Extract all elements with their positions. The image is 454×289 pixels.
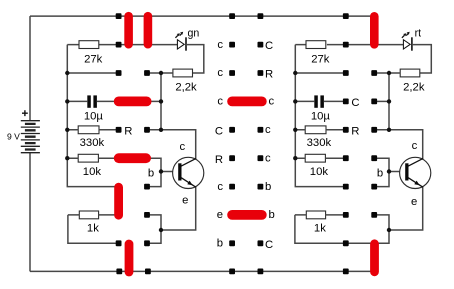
node top E: [343, 13, 349, 19]
node bottom C: [229, 269, 235, 275]
svg-text:1k: 1k: [87, 222, 99, 234]
junction rail row3: [65, 99, 69, 103]
junction right rail row2: [293, 71, 297, 75]
svg-text:R: R: [351, 125, 359, 137]
resistor R9 10k: [305, 154, 325, 162]
wire row4: col F to collector drop: [374, 130, 423, 160]
wire row7: col B to emitter bracket: [147, 215, 161, 243]
svg-text:C: C: [351, 97, 359, 109]
svg-text:27k: 27k: [311, 53, 330, 65]
svg-text:c: c: [217, 39, 223, 51]
jumper V2 top left 2: [144, 12, 153, 49]
wire row7 right: 1k to col E: [326, 214, 346, 216]
svg-text:c: c: [179, 141, 185, 153]
junction emitter left: [159, 228, 163, 232]
resistor R1 27k: [79, 41, 99, 49]
wire base elbow to row6 col F: [374, 172, 389, 187]
junction right rail row3: [293, 99, 297, 103]
node bottom A: [116, 269, 122, 275]
svg-text:C: C: [215, 125, 223, 137]
junction base left: [159, 169, 163, 173]
node D6: [258, 184, 264, 190]
svg-text:c: c: [265, 152, 271, 164]
wire row3 right: rail to cap: [295, 100, 314, 102]
node A1: [116, 42, 122, 48]
wire 1k right elbow to row8: [295, 215, 371, 243]
wire row3: cap to col A: [97, 100, 119, 102]
node D1: [258, 42, 264, 48]
node top D: [258, 13, 264, 19]
node D5: [258, 155, 264, 161]
battery BT1 9V: [7, 110, 40, 152]
wire row5: col B to base junction: [147, 158, 161, 171]
wire left circuit rail: [67, 45, 115, 187]
node E3: [343, 99, 349, 105]
node B8: [144, 240, 150, 246]
node E8: [343, 240, 349, 246]
svg-text:c: c: [265, 124, 271, 136]
capacitor C1 10µ: [84, 95, 104, 122]
wire battery top lead: [29, 16, 31, 120]
svg-text:10k: 10k: [83, 166, 102, 178]
node E1: [343, 42, 349, 48]
node B4: [144, 127, 150, 133]
LED D1 gn: [175, 27, 199, 50]
resistor R8 330k: [305, 126, 326, 134]
wire row5: col F to base junction: [374, 158, 389, 171]
wire row3 left: rail to cap: [67, 100, 87, 102]
junction base right: [387, 169, 391, 173]
svg-text:c: c: [217, 67, 223, 79]
svg-text:27k: 27k: [84, 53, 103, 65]
wire row3: col B to inner rail: [147, 100, 161, 102]
node D4: [258, 127, 264, 133]
svg-text:C: C: [265, 40, 273, 52]
svg-text:c: c: [217, 181, 223, 193]
svg-text:gn: gn: [188, 27, 200, 39]
junction inner rail row4: [159, 128, 163, 132]
junction right rail row5: [293, 156, 297, 160]
svg-text:b: b: [265, 181, 271, 193]
svg-text:e: e: [411, 196, 417, 208]
node B6: [144, 184, 150, 190]
node D2: [258, 70, 264, 76]
node E2: [343, 70, 349, 76]
svg-text:b: b: [217, 238, 223, 250]
node bottom E: [343, 269, 349, 275]
wire row3: cap to col E: [324, 100, 346, 102]
wire row2 left: rail to col A: [67, 72, 118, 74]
node C8: [229, 240, 235, 246]
jumper H1 row3 left: [114, 97, 152, 107]
wire right inner rail: [388, 73, 390, 130]
LED D2 rt: [402, 27, 421, 50]
capacitor C2 10µ: [311, 95, 331, 122]
wire row5 right: rail to 10k to col E: [295, 157, 346, 159]
jumper V6 bottom left: [125, 240, 134, 277]
junction rail row5: [65, 156, 69, 160]
wire row7: col F to emitter bracket: [374, 215, 389, 243]
node B5: [144, 155, 150, 161]
jumper V1 top left: [124, 12, 133, 49]
node B7: [144, 212, 150, 218]
junction rail row4: [65, 128, 69, 132]
node F5: [371, 155, 377, 161]
node A6: [116, 184, 122, 190]
node E6: [343, 184, 349, 190]
resistor R3 330k: [78, 126, 99, 134]
jumper V4 left rows6-7: [114, 183, 123, 220]
node A8: [116, 240, 122, 246]
svg-text:10µ: 10µ: [311, 110, 331, 122]
svg-text:b: b: [377, 168, 383, 180]
junction emitter right: [387, 228, 391, 232]
resistor R2 2,2k: [173, 69, 193, 77]
junction inner rail row3: [159, 99, 163, 103]
wire base junction to transistor right: [389, 171, 403, 173]
svg-text:330k: 330k: [307, 137, 332, 149]
wire row2 right: rail to col E: [295, 72, 346, 74]
wire LED rt cathode to right elbow: [412, 45, 431, 73]
wire row2: col F to 2,2k: [374, 72, 400, 74]
node A3: [116, 99, 122, 105]
wire row1 right: rail to LED anode: [295, 44, 403, 46]
wire top rail: [30, 15, 374, 17]
node top A: [116, 13, 122, 19]
node C4: [229, 127, 235, 133]
node bottom B: [145, 269, 151, 275]
svg-text:2,2k: 2,2k: [175, 82, 197, 94]
node A2: [116, 70, 122, 76]
svg-text:c: c: [412, 140, 418, 152]
wire battery bottom lead: [29, 153, 31, 271]
transistor Q2: [377, 140, 431, 208]
wire 1k left elbow to row8: [68, 215, 119, 243]
wire base junction to transistor: [161, 171, 176, 173]
node E4: [343, 127, 349, 133]
node B2: [144, 70, 150, 76]
jumper H3 row5 left: [114, 153, 151, 163]
junction right rail row4: [293, 128, 297, 132]
svg-text:10µ: 10µ: [84, 110, 104, 122]
node D8: [258, 240, 264, 246]
node F3: [371, 99, 377, 105]
svg-text:R: R: [265, 69, 273, 81]
jumper V5 bottom right: [370, 239, 379, 276]
node F6: [371, 184, 377, 190]
resistor R10 1k: [306, 211, 325, 219]
junction inner rail row2: [159, 71, 163, 75]
junction right inner rail row4: [387, 128, 391, 132]
wire base elbow to row6 col B: [147, 172, 161, 187]
svg-text:R: R: [215, 154, 223, 166]
svg-text:b: b: [269, 209, 275, 221]
svg-text:b: b: [148, 168, 154, 180]
node A4: [116, 127, 122, 133]
node C6: [229, 184, 235, 190]
jumper H4 row7 center: [227, 210, 267, 220]
svg-text:e: e: [182, 194, 188, 206]
node A7: [116, 212, 122, 218]
svg-text:rt: rt: [415, 27, 422, 39]
node C2: [229, 70, 235, 76]
wire right circuit rail: [295, 45, 346, 187]
wire row4: col B to collector drop: [147, 130, 196, 160]
junction rail row2: [65, 71, 69, 75]
jumper V3 top right: [370, 12, 379, 49]
svg-text:c: c: [269, 96, 275, 108]
node A5: [116, 155, 122, 161]
resistor R5 1k: [79, 211, 98, 219]
wire emitter to bracket: [161, 186, 196, 230]
wire LED cathode to right elbow: [186, 45, 204, 73]
node C5: [229, 155, 235, 161]
svg-text:1k: 1k: [314, 222, 326, 234]
node bottom D: [258, 269, 264, 275]
resistor R6 27k: [306, 41, 326, 49]
wire row1 left: rail to LED anode: [67, 44, 177, 46]
node E5: [343, 155, 349, 161]
wire row3: col F to inner rail: [374, 100, 389, 102]
wire row2: col B to 2,2k: [147, 72, 173, 74]
node F2: [371, 70, 377, 76]
node E7: [343, 212, 349, 218]
svg-text:e: e: [217, 209, 223, 221]
wire row4 left: rail to 330k to col A: [67, 129, 118, 131]
svg-text:10k: 10k: [310, 166, 329, 178]
wire emitter right to bracket: [389, 186, 423, 230]
node top C: [229, 13, 235, 19]
transistor Q1: [148, 141, 204, 207]
wire row4 right: rail to 330k to col E: [295, 129, 346, 131]
junction right inner rail row2: [387, 71, 391, 75]
svg-text:c: c: [217, 96, 223, 108]
svg-text:R: R: [124, 125, 132, 137]
svg-text:C: C: [265, 239, 273, 251]
node B3: [144, 99, 150, 105]
node F4: [371, 127, 377, 133]
svg-text:330k: 330k: [80, 137, 105, 149]
wire left inner rail: [160, 73, 162, 130]
jumper H2 row3 center: [227, 97, 267, 107]
node C1: [229, 42, 235, 48]
wire row7 left: 1k to col A: [99, 214, 115, 216]
resistor R4 10k: [78, 154, 98, 162]
svg-text:9 V: 9 V: [7, 132, 20, 142]
junction right inner rail row3: [387, 99, 391, 103]
svg-text:2,2k: 2,2k: [403, 82, 425, 94]
resistor R7 2,2k: [400, 69, 420, 77]
wire bottom rail: [30, 270, 371, 272]
wire row5 left: rail to 10k to col A: [67, 157, 118, 159]
node F7: [371, 212, 377, 218]
